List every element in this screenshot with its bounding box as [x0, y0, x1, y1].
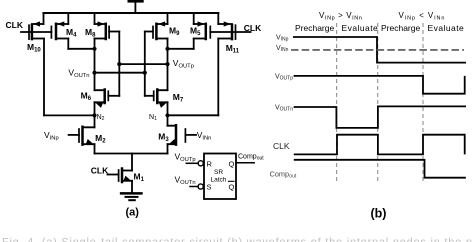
svg-text:M3: M3	[158, 132, 169, 144]
svg-text:M8: M8	[85, 27, 96, 39]
svg-text:VINp < VINn: VINp < VINn	[399, 11, 446, 21]
svg-text:Compout: Compout	[270, 170, 297, 180]
svg-text:M9: M9	[169, 26, 180, 38]
svg-text:VINn: VINn	[276, 45, 289, 53]
svg-text:CLK: CLK	[6, 20, 24, 30]
svg-text:N1: N1	[149, 114, 157, 122]
svg-text:S: S	[207, 183, 212, 192]
svg-text:VOUTn: VOUTn	[175, 175, 196, 187]
svg-text:M1: M1	[134, 172, 145, 184]
svg-text:M7: M7	[173, 92, 184, 104]
svg-text:VOUTp: VOUTp	[275, 73, 293, 81]
svg-text:VINp: VINp	[276, 35, 289, 43]
svg-text:M6: M6	[81, 91, 92, 103]
svg-text:SR: SR	[214, 169, 223, 176]
svg-text:Q: Q	[229, 183, 235, 192]
svg-text:VOUTn: VOUTn	[68, 68, 89, 80]
svg-text:VOUTn: VOUTn	[275, 105, 293, 113]
svg-text:Compout: Compout	[238, 154, 264, 162]
svg-text:N2: N2	[97, 114, 105, 122]
svg-text:CLK: CLK	[91, 166, 109, 176]
svg-text:Precharge: Precharge	[295, 23, 334, 33]
svg-text:M4: M4	[66, 27, 77, 39]
svg-text:M2: M2	[95, 133, 106, 145]
svg-text:Evaluate: Evaluate	[342, 23, 379, 33]
svg-text:VOUTp: VOUTp	[173, 58, 194, 70]
svg-text:R: R	[207, 160, 213, 169]
svg-text:(a): (a)	[126, 207, 140, 219]
svg-text:VINp > VINn: VINp > VINn	[319, 11, 363, 21]
svg-text:M5: M5	[190, 26, 201, 38]
svg-text:M11: M11	[226, 43, 240, 55]
svg-text:Evaluate: Evaluate	[428, 23, 465, 33]
svg-text:M10: M10	[27, 42, 41, 54]
svg-text:VINn: VINn	[197, 130, 212, 142]
svg-text:VINp: VINp	[44, 130, 59, 142]
svg-text:Precharge: Precharge	[381, 23, 420, 33]
svg-text:CLK: CLK	[273, 141, 290, 151]
svg-text:Latch: Latch	[211, 177, 227, 184]
svg-text:Q: Q	[229, 160, 235, 169]
svg-text:(b): (b)	[371, 207, 387, 221]
svg-text:CLK: CLK	[244, 23, 262, 33]
svg-text:Fig. 4. (a) Single-tail co: Fig. 4. (a) Single-tail comparator circu…	[2, 237, 472, 242]
svg-text:VOUTp: VOUTp	[175, 152, 196, 164]
